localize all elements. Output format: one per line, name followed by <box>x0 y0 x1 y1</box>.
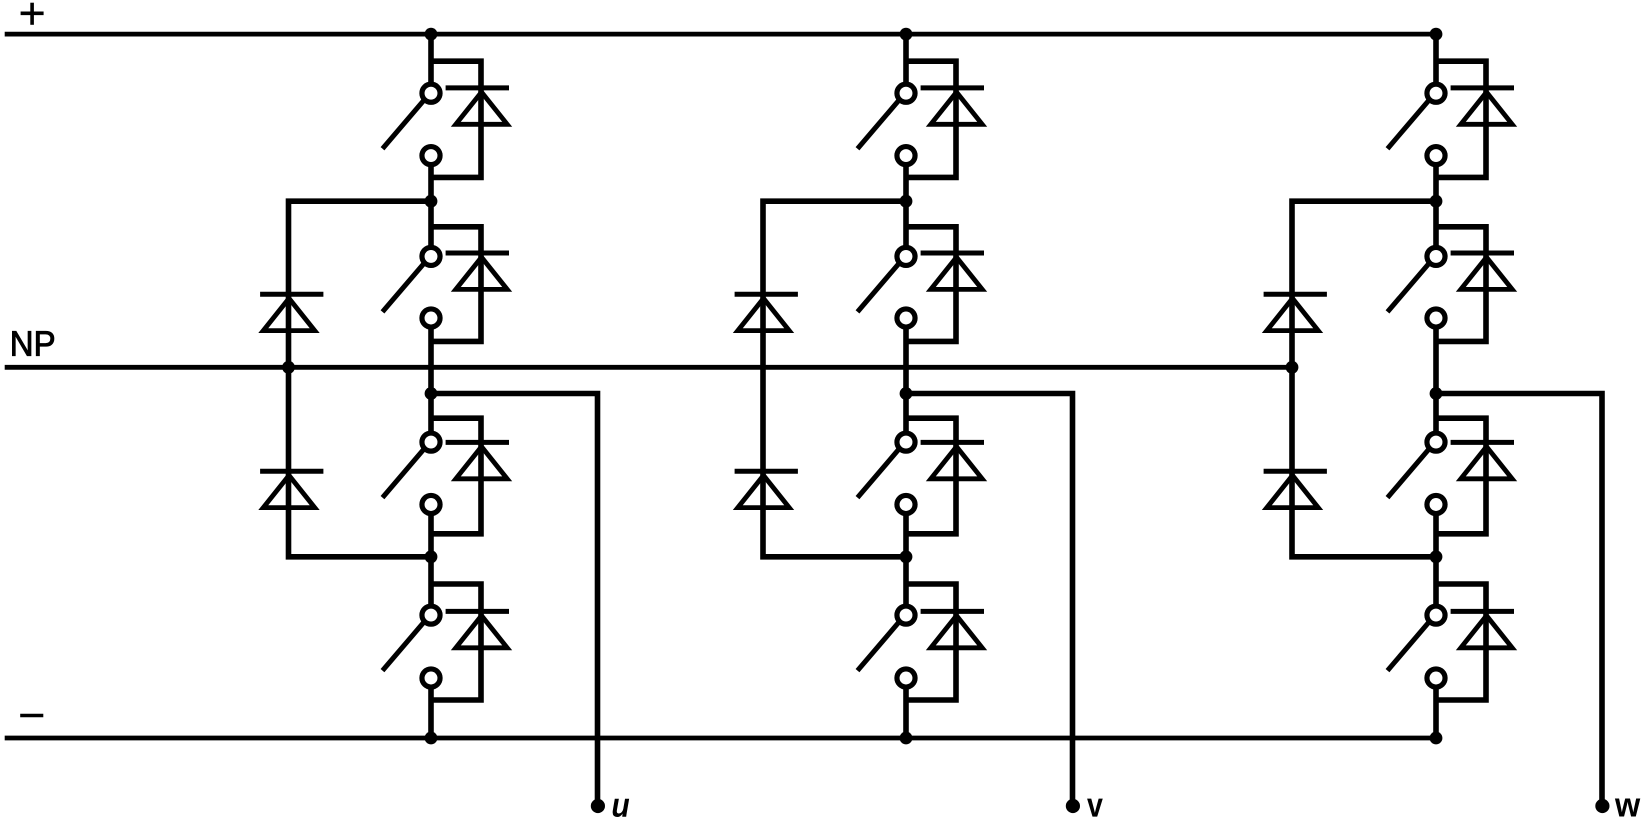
label u (phase u) <box>613 799 630 817</box>
switch S2u (ideal switch, leg u) <box>383 247 441 327</box>
junction on NP bus, leg w <box>1286 361 1299 374</box>
antiparallel diode D1w of switch S1w <box>1436 61 1514 177</box>
clamp diode D6u (lower clamp from NP) <box>260 471 323 507</box>
node B1 junction (between S3u and S4u) <box>425 550 438 563</box>
terminal v <box>1066 799 1080 813</box>
wire S4u to - bus <box>428 686 434 738</box>
wire clamp branch: node A3 to clamp column to node B3, leg w <box>1292 201 1436 557</box>
node A2 junction (between S1v and S2v) <box>900 195 913 208</box>
wire phase u output tap <box>431 394 598 803</box>
switch S1v (ideal switch, leg v) <box>858 84 916 165</box>
wire S3v to S4v (node B) <box>903 513 909 608</box>
node on - bus, leg u <box>425 732 438 745</box>
node on + bus, leg w <box>1430 28 1443 41</box>
midpoint node, phase v <box>900 387 913 400</box>
switch S4w (ideal switch, leg w) <box>1388 606 1446 687</box>
antiparallel diode D1u of switch S1u <box>431 61 509 177</box>
terminal w <box>1595 799 1609 813</box>
node B2 junction (between S3v and S4v) <box>900 550 913 563</box>
neutral point bus NP <box>5 365 1292 370</box>
wire S2v to S3v (midpoint, crosses NP bus) <box>903 326 909 434</box>
antiparallel diode D2u of switch S2u <box>431 227 509 342</box>
switch S3u (ideal switch, leg u) <box>383 433 441 513</box>
antiparallel diode D3w of switch S3w <box>1436 418 1514 534</box>
wire clamp branch: node A2 to clamp column to node B2, leg v <box>763 201 906 557</box>
switch S3v (ideal switch, leg v) <box>858 433 916 513</box>
label + (positive bus) <box>21 3 44 25</box>
antiparallel diode D2w of switch S2w <box>1436 227 1514 342</box>
clamp diode D5v (upper clamp to NP) <box>735 294 798 330</box>
node on + bus, leg u <box>425 28 438 41</box>
wire S4w to - bus <box>1433 686 1439 738</box>
node A1 junction (between S1u and S2u) <box>425 195 438 208</box>
antiparallel diode D2v of switch S2v <box>906 227 984 342</box>
clamp diode D6v (lower clamp from NP) <box>735 471 798 507</box>
negative DC bus (-) <box>5 736 1436 741</box>
positive DC bus (+) <box>5 32 1442 37</box>
wire S2w to S3w (midpoint, crosses NP bus) <box>1433 326 1439 434</box>
label NP <box>12 331 53 355</box>
label v (phase v) <box>1087 799 1103 817</box>
antiparallel diode D1v of switch S1v <box>906 61 984 177</box>
clamp diode D5w (upper clamp to NP) <box>1264 294 1327 330</box>
switch S4v (ideal switch, leg v) <box>858 606 916 687</box>
switch S1w (ideal switch, leg w) <box>1388 84 1446 165</box>
node on - bus, leg v <box>900 732 913 745</box>
switch S3w (ideal switch, leg w) <box>1388 433 1446 513</box>
midpoint node, phase w <box>1430 387 1443 400</box>
antiparallel diode D4v of switch S4v <box>906 584 984 700</box>
wire S1w to S2w (node A) <box>1433 164 1439 249</box>
wire phase v output tap <box>906 394 1073 803</box>
switch S4u (ideal switch, leg u) <box>383 606 441 687</box>
wire phase w output tap <box>1436 394 1602 803</box>
wire + bus to switch S1u <box>428 34 434 85</box>
antiparallel diode D4w of switch S4w <box>1436 584 1514 700</box>
wire + bus to switch S1v <box>903 34 909 85</box>
clamp diode D5u (upper clamp to NP) <box>260 294 323 330</box>
switch S2v (ideal switch, leg v) <box>858 247 916 327</box>
wire S1u to S2u (node A) <box>428 164 434 249</box>
wire S1v to S2v (node A) <box>903 164 909 249</box>
wire S3w to S4w (node B) <box>1433 513 1439 608</box>
node on + bus, leg v <box>900 28 913 41</box>
antiparallel diode D4u of switch S4u <box>431 584 509 700</box>
label w (phase w) <box>1615 799 1640 817</box>
wire S2u to S3u (midpoint, crosses NP bus) <box>428 326 434 434</box>
switch S2w (ideal switch, leg w) <box>1388 247 1446 327</box>
wire + bus to switch S1w <box>1433 34 1439 85</box>
antiparallel diode D3v of switch S3v <box>906 418 984 534</box>
antiparallel diode D3u of switch S3u <box>431 418 509 534</box>
clamp diode D6w (lower clamp from NP) <box>1264 471 1327 507</box>
node on - bus, leg w <box>1430 732 1443 745</box>
junction on NP bus, leg u <box>282 361 295 374</box>
label - (negative bus) <box>20 714 43 718</box>
wire clamp branch: node A1 to clamp column to node B1, leg u <box>289 201 432 557</box>
midpoint node, phase u <box>425 387 438 400</box>
node B3 junction (between S3w and S4w) <box>1430 550 1443 563</box>
wire S3u to S4u (node B) <box>428 513 434 608</box>
terminal u <box>591 799 605 813</box>
wire S4v to - bus <box>903 686 909 738</box>
switch S1u (ideal switch, leg u) <box>383 84 441 165</box>
node A3 junction (between S1w and S2w) <box>1430 195 1443 208</box>
